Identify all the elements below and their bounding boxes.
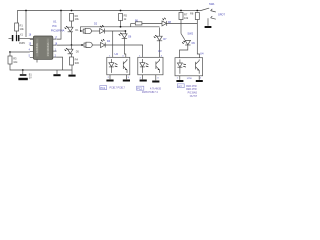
resistor R1 [15,23,25,31]
svg-text:D2: D2 [94,23,98,26]
svg-text:OPT: OPT [178,86,183,88]
svg-text:1: 1 [177,78,179,80]
wire row2 to box2 [105,45,142,57]
svg-text:U4: U4 [200,52,204,56]
switch SW1 [201,2,225,19]
svg-text:1/2W: 1/2W [187,78,193,80]
ground box1 b [123,75,130,82]
diode LED1 indicator [119,33,132,39]
pin labels box2 [139,56,163,80]
wire R3 down to gnd rail [10,64,72,70]
diode D9 LED down [182,40,195,45]
diode LED2 indicator [154,35,167,41]
wire row1 [81,30,84,32]
ground sw1 [205,18,212,28]
wire VSS left [9,51,30,56]
svg-text:PC817 PC817: PC817 PC817 [110,87,126,90]
resistor R3 [8,56,18,64]
svg-text:4MHz: 4MHz [19,42,26,45]
svg-text:U1: U1 [53,20,57,24]
svg-text:OUT P: OUT P [190,95,198,98]
resistor R4 [70,54,80,65]
battery B1 [18,70,32,80]
diode D8 LED right [162,18,172,26]
node rail R8 [196,10,198,12]
svg-text:D1: D1 [75,29,79,32]
svg-text:X1: X1 [20,33,24,36]
svg-text:SW1: SW1 [209,2,215,6]
node rail R2 [71,10,73,12]
svg-text:2: 2 [140,77,142,79]
resistor R2 [70,14,80,22]
svg-text:3: 3 [128,77,130,79]
node row2 a [71,44,73,46]
ground box3 a [176,76,183,82]
optocoupler U4 box [175,58,203,76]
wire drop LED2b [159,28,161,37]
svg-text:SPDT: SPDT [218,13,225,17]
ground box2 b [152,75,159,83]
wire MCLR drop [25,11,27,38]
diode D4 LED right [101,39,111,47]
wire LED2b to box2 [159,41,161,58]
resistor R8 [190,11,199,19]
svg-text:PC2: PC2 [137,87,142,90]
optocoupler U3 box [138,57,163,75]
text bottom2 [142,87,162,94]
svg-text:D4: D4 [107,40,111,43]
wire pin RB to ground [57,57,63,70]
svg-text:330: 330 [75,61,80,65]
node rail-MCLR [25,10,27,12]
svg-text:2: 2 [108,77,110,79]
wire R6 to D8 [142,22,162,24]
svg-text:16F84A: 16F84A [35,43,39,53]
node row2 b [81,44,83,46]
svg-text:PC1: PC1 [101,87,106,90]
svg-text:3V: 3V [29,77,32,80]
IC pin stubs left [30,39,34,41]
buzzer BZ1 [83,28,91,33]
tag 2 [137,86,144,90]
svg-text:15: 15 [29,44,32,46]
svg-text:16: 16 [29,35,32,37]
svg-text:PIC: PIC [52,24,56,28]
svg-text:5: 5 [29,56,31,58]
svg-text:10k: 10k [184,16,189,20]
svg-text:SW2: SW2 [187,32,193,36]
ground box2 a [140,75,147,82]
wire buz2 to D4 [92,44,100,46]
IC pin stubs right [53,38,57,40]
node rail R5 [120,10,122,12]
svg-text:4N35 PC817 4: 4N35 PC817 4 [142,91,158,94]
wire R8 to M2 [196,20,198,24]
resistor R5 [119,14,128,21]
pin labels box1 [108,56,130,79]
wire R5 to railB [120,21,122,27]
wire sw2 column [180,20,182,34]
svg-text:10k: 10k [75,17,80,21]
wire D8 to box3 right [167,23,200,57]
svg-text:10k: 10k [13,60,18,64]
svg-text:4.7k 4N35: 4.7k 4N35 [150,87,162,90]
svg-text:U2: U2 [115,52,119,56]
wire row1 to box1 [104,31,125,34]
label U1 text above IC [51,20,65,33]
wire railB [81,27,160,31]
svg-text:R8: R8 [190,11,194,15]
diode D5 LED down [65,45,80,54]
ground left1 [53,70,60,76]
svg-text:4: 4 [29,50,31,52]
wire col61 [57,11,61,40]
resistor R7 [179,13,189,20]
wire D9 to box3 [180,45,188,58]
text bottom3 [186,85,197,98]
node batt [22,69,24,71]
svg-text:PIC16F84A: PIC16F84A [46,42,50,56]
wire M2 jog [130,23,132,26]
node row1 D6 branch [125,30,127,32]
pin labels box3 [177,78,202,80]
diode D2 LED right [94,23,104,34]
optocoupler U2 box [107,57,130,75]
diode D1 LED down [65,26,80,32]
wire M2 [131,22,135,24]
svg-text:D5: D5 [76,51,80,54]
svg-text:D9: D9 [192,42,196,45]
wire D1 to row2 [71,32,73,45]
node railB-row1 [80,30,82,32]
node railB R5 [120,26,122,28]
svg-text:4: 4 [200,78,202,80]
tag LCD1 [100,86,107,90]
node rail col61 [60,10,62,12]
resistor R6 [135,20,142,25]
pin numbers blue [29,35,58,58]
ground left2 [68,65,75,77]
ground box1 a [106,75,113,82]
wire R2 to D1 [71,21,73,27]
node rail sw2col [180,10,182,12]
svg-text:U3: U3 [158,49,162,53]
crystal X1 [9,33,34,45]
ground box3 b [196,76,203,82]
wire row2 [57,44,84,46]
svg-text:D6: D6 [128,36,132,39]
wire LED1b to box1 [124,33,125,35]
tag 3 [177,84,184,88]
wire buz1 to D2 [92,30,100,32]
svg-text:D7: D7 [163,38,167,41]
buzzer BZ2 [84,42,92,47]
svg-text:PIC16F84A: PIC16F84A [51,29,65,33]
svg-text:3: 3 [157,77,159,79]
switch SW2 [181,32,194,40]
wire top rail [18,11,202,24]
IC U1 [33,36,53,59]
wire R1 to osc [16,31,18,35]
svg-text:10k: 10k [20,27,25,31]
